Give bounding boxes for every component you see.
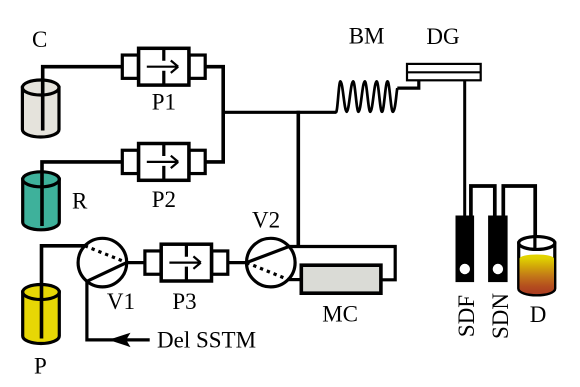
wire R to P2 [42,162,123,226]
svg-text:V2: V2 [252,207,280,232]
svg-text:DG: DG [426,24,459,49]
svg-text:P2: P2 [152,187,176,212]
wire V2 to MC inlet [288,278,301,281]
coil BM [336,81,397,112]
wire junction to coil [223,111,336,114]
svg-text:SDN: SDN [488,293,513,339]
wire bus P1 P2 to junction [205,67,223,162]
svg-text:D: D [530,302,547,327]
tube SDF to SDN [471,186,495,217]
vessel R [23,172,60,230]
vessel C [22,80,59,137]
pump P2 [122,144,205,181]
wire P3 to V2 [228,261,247,264]
svg-text:P1: P1 [152,89,176,114]
svg-text:SDF: SDF [454,295,479,337]
svg-text:V1: V1 [107,289,135,314]
wire V1 to P3 [127,261,145,264]
svg-text:C: C [32,27,47,52]
wire tube into D [533,236,536,249]
valve V1 [78,238,127,287]
svg-text:P: P [34,354,47,379]
svg-text:Del SSTM: Del SSTM [157,328,256,353]
detector SDF [456,216,475,283]
detector SDN [488,216,508,283]
wire junction drop to V2 [296,111,300,247]
tube SDN to D [503,186,535,249]
wire P to V1 [42,246,85,339]
wire Del SSTM to V1 [87,281,150,340]
svg-text:BM: BM [349,23,385,48]
pump P1 [122,48,205,85]
wire DG to SDF [463,80,466,216]
degasser DG [407,64,481,80]
microreactor MC [301,265,381,293]
svg-text:R: R [72,189,88,214]
vessel P [23,285,60,344]
wire C to P1 [43,67,123,131]
svg-text:P3: P3 [172,289,196,314]
vessel D [519,237,555,295]
pump P3 [145,244,228,281]
wire coil to DG [397,80,419,88]
svg-text:MC: MC [322,302,358,327]
wire V2 to MC loop [289,247,395,280]
arrowhead Del SSTM [109,333,131,347]
valve V2 [246,238,295,287]
